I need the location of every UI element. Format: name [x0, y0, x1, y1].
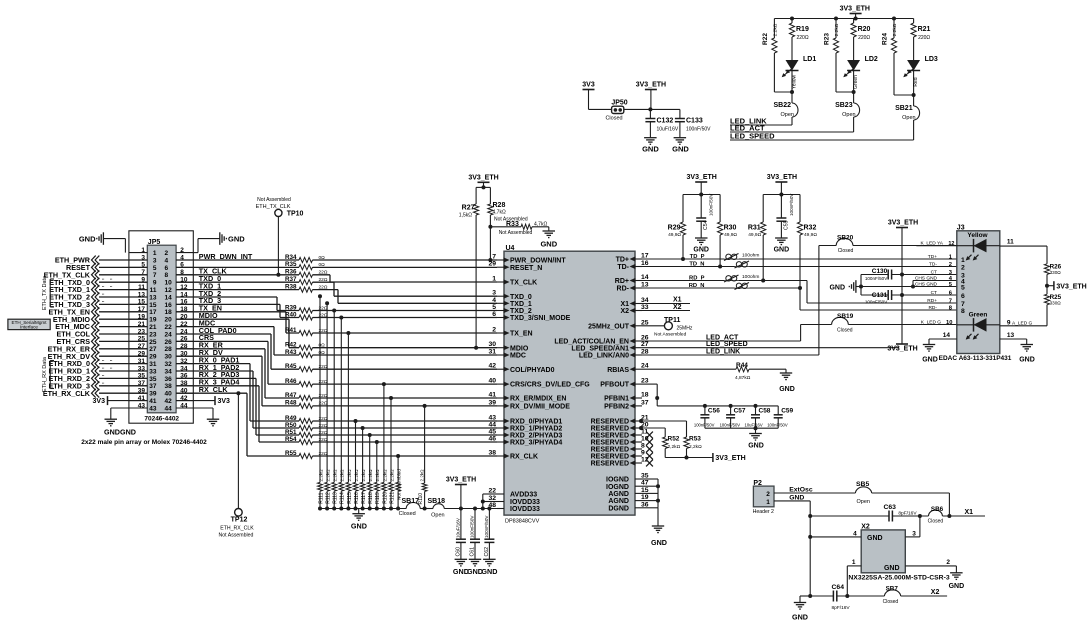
svg-text:8: 8 [641, 443, 645, 450]
svg-text:RXD_3/PHYAD4: RXD_3/PHYAD4 [510, 440, 562, 447]
svg-text:19: 19 [149, 317, 157, 324]
svg-text:1: 1 [852, 559, 856, 566]
svg-text:PFBIN1: PFBIN1 [604, 396, 629, 403]
svg-text:39: 39 [149, 391, 157, 398]
svg-text:K_LED YA: K_LED YA [921, 240, 944, 246]
svg-text:3V3_ETH: 3V3_ETH [767, 174, 797, 181]
svg-text:Interface: Interface [20, 325, 38, 330]
svg-text:2: 2 [949, 262, 952, 268]
svg-text:R24: R24 [882, 33, 889, 45]
svg-text:SB22: SB22 [773, 102, 791, 109]
svg-text:R37: R37 [285, 276, 297, 283]
svg-text:SB19: SB19 [837, 313, 854, 320]
svg-text:Green: Green [853, 75, 859, 89]
svg-text:ETH_RX_CLK: ETH_RX_CLK [220, 526, 254, 532]
svg-text:C133: C133 [686, 118, 703, 125]
svg-text:R49: R49 [285, 415, 297, 422]
svg-text:MDC: MDC [510, 353, 526, 360]
svg-text:R113: R113 [333, 492, 339, 504]
svg-text:GND: GND [949, 583, 965, 590]
svg-text:R41: R41 [285, 327, 297, 334]
svg-text:K_LED G: K_LED G [921, 320, 942, 326]
svg-text:12: 12 [948, 241, 954, 247]
svg-text:TD-: TD- [929, 262, 937, 268]
svg-text:49,9Ω: 49,9Ω [668, 232, 681, 238]
svg-text:37: 37 [641, 399, 649, 406]
svg-text:X1: X1 [673, 297, 682, 304]
svg-text:10uF/16V: 10uF/16V [657, 127, 679, 133]
svg-text:25: 25 [149, 339, 157, 346]
svg-text:18: 18 [165, 309, 173, 316]
svg-text:Closed: Closed [605, 116, 622, 122]
svg-text:RX_CLK: RX_CLK [510, 454, 538, 461]
svg-text:7: 7 [153, 272, 157, 279]
svg-text:2.2kΩ: 2.2kΩ [892, 23, 898, 36]
svg-text:18: 18 [641, 392, 649, 399]
svg-text:R50: R50 [285, 422, 297, 429]
svg-text:3V3_ETH: 3V3_ETH [687, 174, 717, 181]
svg-text:100nF/50V: 100nF/50V [694, 423, 715, 428]
svg-text:R21: R21 [918, 26, 931, 33]
svg-text:R22: R22 [762, 33, 769, 45]
svg-text:X2: X2 [931, 589, 940, 596]
svg-text:Closed: Closed [837, 328, 853, 334]
svg-text:11: 11 [1007, 239, 1014, 246]
svg-text:R44: R44 [736, 362, 748, 369]
svg-text:▪▪: ▪▪ [110, 277, 112, 281]
svg-text:100ohm: 100ohm [742, 274, 759, 280]
svg-text:C63: C63 [883, 504, 896, 511]
svg-text:R48: R48 [285, 400, 297, 407]
svg-text:220Ω: 220Ω [858, 35, 870, 41]
svg-text:C59: C59 [781, 408, 793, 415]
svg-text:41: 41 [149, 398, 157, 405]
svg-text:Green: Green [969, 312, 988, 319]
svg-text:TX_CLK: TX_CLK [510, 280, 537, 287]
svg-text:RD_P: RD_P [689, 276, 705, 282]
svg-text:R42: R42 [285, 342, 297, 349]
svg-text:1,5kΩ: 1,5kΩ [459, 213, 472, 219]
svg-text:29: 29 [149, 354, 157, 361]
svg-text:100nF/50V: 100nF/50V [789, 193, 794, 216]
svg-text:2: 2 [180, 247, 184, 254]
svg-text:C60: C60 [455, 547, 461, 557]
svg-text:J3: J3 [957, 225, 965, 232]
svg-text:3V3: 3V3 [218, 398, 231, 405]
svg-text:3: 3 [912, 531, 916, 538]
svg-text:29: 29 [488, 261, 496, 268]
svg-text:TD_N: TD_N [689, 262, 704, 268]
svg-text:R33: R33 [506, 221, 519, 228]
svg-text:0Ω: 0Ω [319, 255, 326, 261]
svg-text:DGND: DGND [608, 505, 629, 512]
svg-text:2.2kΩ: 2.2kΩ [361, 469, 366, 482]
svg-text:X1: X1 [965, 509, 974, 516]
svg-text:31: 31 [149, 361, 157, 368]
svg-text:GND: GND [779, 386, 795, 393]
svg-text:RESERVED: RESERVED [591, 454, 629, 461]
svg-text:A_LED G: A_LED G [1012, 320, 1033, 326]
svg-text:GND: GND [829, 284, 845, 291]
svg-text:22: 22 [165, 324, 173, 331]
svg-text:C61: C61 [470, 547, 476, 557]
svg-text:IOVDD33: IOVDD33 [510, 506, 540, 513]
svg-text:49,9Ω: 49,9Ω [748, 232, 761, 238]
svg-text:R115: R115 [347, 492, 353, 504]
svg-text:Not Assembled: Not Assembled [499, 230, 533, 236]
svg-text:CHS GND: CHS GND [915, 276, 938, 282]
svg-text:R119: R119 [375, 492, 381, 504]
svg-text:LD1: LD1 [803, 56, 816, 63]
svg-text:4,7kΩ: 4,7kΩ [493, 210, 506, 216]
svg-text:R52: R52 [668, 436, 680, 443]
svg-text:30: 30 [165, 354, 173, 361]
svg-text:X1: X1 [620, 301, 629, 308]
svg-text:RD_N: RD_N [689, 283, 705, 289]
svg-text:22Ω: 22Ω [319, 277, 328, 283]
svg-text:▪▪: ▪▪ [102, 359, 104, 363]
svg-text:14: 14 [165, 294, 173, 301]
svg-text:R19: R19 [796, 26, 809, 33]
svg-text:TXD_1: TXD_1 [510, 301, 532, 308]
svg-text:IOGND: IOGND [606, 477, 629, 484]
svg-text:9: 9 [153, 280, 157, 287]
svg-text:TXD_3/SNI_MODE: TXD_3/SNI_MODE [510, 315, 571, 322]
svg-text:10: 10 [641, 436, 649, 443]
svg-text:13: 13 [1007, 332, 1015, 339]
svg-text:RESERVED: RESERVED [591, 426, 629, 433]
svg-text:C62: C62 [484, 547, 490, 557]
svg-text:70246-4402: 70246-4402 [144, 416, 179, 423]
svg-text:R43: R43 [285, 349, 297, 356]
svg-text:TP10: TP10 [287, 211, 304, 218]
svg-text:CT: CT [931, 290, 937, 296]
svg-text:10uF/16V: 10uF/16V [745, 423, 763, 428]
svg-text:LED_LINK/AN0: LED_LINK/AN0 [579, 353, 629, 360]
svg-text:GND: GND [1019, 356, 1035, 363]
svg-text:22Ω: 22Ω [319, 284, 328, 290]
svg-text:R112: R112 [326, 492, 332, 504]
svg-text:Header 2: Header 2 [753, 509, 774, 515]
svg-text:Closed: Closed [838, 248, 854, 254]
svg-text:49,9Ω: 49,9Ω [724, 232, 737, 238]
svg-text:R111: R111 [318, 492, 324, 503]
svg-text:▪▪: ▪▪ [102, 381, 104, 385]
svg-text:100nF/50V: 100nF/50V [484, 515, 489, 538]
svg-text:SB5: SB5 [856, 481, 869, 488]
svg-text:8pF/16V: 8pF/16V [832, 605, 851, 611]
svg-text:TP11: TP11 [664, 317, 680, 324]
svg-text:RBIAS: RBIAS [607, 367, 629, 374]
svg-text:R30: R30 [724, 225, 737, 232]
svg-text:12: 12 [165, 287, 173, 294]
svg-text:GND: GND [693, 247, 709, 254]
svg-text:8pF/16V: 8pF/16V [898, 511, 917, 517]
svg-text:13: 13 [149, 294, 157, 301]
svg-text:16: 16 [165, 302, 173, 309]
svg-text:R51: R51 [285, 429, 297, 436]
svg-text:Yellow: Yellow [967, 232, 988, 239]
svg-text:1: 1 [961, 257, 965, 264]
svg-text:RXD_0/PHYAD1: RXD_0/PHYAD1 [510, 419, 562, 426]
svg-text:IOGND: IOGND [606, 484, 629, 491]
svg-text:2: 2 [961, 264, 965, 271]
svg-text:Not Assembled: Not Assembled [219, 533, 254, 539]
svg-text:GND: GND [351, 521, 367, 530]
svg-text:Not Assembled: Not Assembled [397, 469, 402, 500]
svg-text:22Ω: 22Ω [319, 270, 328, 276]
svg-text:40: 40 [165, 391, 173, 398]
svg-text:GND: GND [228, 235, 245, 244]
svg-text:3V3_ETH: 3V3_ETH [1056, 283, 1086, 290]
svg-text:3V3_ETH: 3V3_ETH [636, 82, 666, 89]
svg-text:C130: C130 [872, 268, 888, 275]
svg-text:R35: R35 [285, 261, 297, 268]
svg-text:44: 44 [165, 405, 173, 412]
svg-text:R31: R31 [748, 225, 761, 232]
svg-text:RESERVED: RESERVED [591, 419, 629, 426]
svg-text:3: 3 [153, 257, 157, 264]
svg-text:R116: R116 [354, 492, 360, 504]
svg-text:ETH_RX Data: ETH_RX Data [42, 356, 48, 392]
svg-text:LD2: LD2 [865, 56, 878, 63]
svg-text:C54: C54 [703, 220, 709, 230]
svg-text:MDIO: MDIO [510, 345, 529, 352]
svg-text:R114: R114 [340, 492, 346, 504]
svg-text:TXD_0: TXD_0 [510, 294, 532, 301]
svg-text:8: 8 [961, 308, 965, 315]
svg-text:330Ω: 330Ω [1050, 301, 1062, 306]
svg-text:R23: R23 [824, 33, 831, 45]
svg-text:RD-: RD- [617, 286, 630, 293]
svg-text:3V3_ETH: 3V3_ETH [468, 174, 498, 181]
svg-text:100ohm: 100ohm [742, 253, 759, 259]
svg-text:U4: U4 [506, 245, 515, 252]
svg-text:GND: GND [481, 567, 497, 576]
svg-text:GND: GND [540, 240, 557, 249]
svg-text:3V3_ETH: 3V3_ETH [888, 220, 918, 227]
svg-text:2: 2 [766, 491, 770, 498]
svg-text:Red: Red [913, 77, 919, 86]
svg-text:100nF/50V: 100nF/50V [865, 300, 888, 305]
svg-text:R118: R118 [368, 492, 374, 504]
svg-text:C64: C64 [832, 584, 845, 591]
svg-text:SB21: SB21 [895, 105, 913, 112]
svg-text:2.2kΩ: 2.2kΩ [419, 469, 424, 482]
svg-text:R120: R120 [382, 492, 388, 504]
svg-text:RESERVED: RESERVED [591, 433, 629, 440]
svg-text:RESERVED: RESERVED [591, 447, 629, 454]
svg-text:7: 7 [961, 301, 965, 308]
svg-text:2.2kΩ: 2.2kΩ [834, 23, 840, 36]
svg-text:TX_EN: TX_EN [510, 331, 533, 338]
svg-text:JP5: JP5 [148, 239, 161, 246]
svg-text:RD+: RD+ [615, 278, 629, 285]
svg-text:10: 10 [946, 320, 952, 326]
svg-text:JP50: JP50 [611, 100, 627, 107]
svg-text:100nF/50V: 100nF/50V [865, 276, 888, 281]
svg-text:ExtOsc: ExtOsc [789, 487, 813, 494]
svg-text:7: 7 [949, 299, 952, 305]
svg-text:AVDD33: AVDD33 [510, 492, 537, 499]
svg-text:17: 17 [149, 309, 157, 316]
svg-text:23: 23 [149, 331, 157, 338]
svg-text:TP12: TP12 [231, 517, 248, 524]
svg-text:4,87kΩ: 4,87kΩ [735, 375, 751, 381]
svg-text:GND: GND [651, 538, 667, 547]
svg-text:RX_ER/MDIX_EN: RX_ER/MDIX_EN [510, 396, 566, 403]
svg-text:10: 10 [165, 280, 173, 287]
svg-text:2.2kΩ: 2.2kΩ [382, 469, 387, 482]
svg-text:100nF/50V: 100nF/50V [720, 423, 741, 428]
svg-text:▪▪: ▪▪ [102, 277, 104, 281]
svg-text:▪▪: ▪▪ [102, 299, 104, 303]
svg-text:5: 5 [961, 284, 965, 291]
svg-text:11: 11 [150, 287, 157, 294]
svg-text:CT: CT [931, 270, 937, 276]
svg-text:4: 4 [165, 257, 169, 264]
svg-text:RXD_1/PHYAD2: RXD_1/PHYAD2 [510, 426, 562, 433]
svg-text:28: 28 [165, 346, 173, 353]
svg-text:R54: R54 [285, 436, 297, 443]
svg-text:R46: R46 [285, 378, 297, 385]
svg-text:X2: X2 [673, 304, 682, 311]
svg-text:SB6: SB6 [931, 506, 944, 513]
svg-text:3V3_ETH: 3V3_ETH [446, 477, 476, 484]
svg-text:36: 36 [165, 376, 173, 383]
svg-text:2,2kΩ: 2,2kΩ [668, 444, 681, 450]
svg-text:Open: Open [902, 115, 915, 121]
svg-text:GND: GND [672, 145, 689, 154]
svg-text:SB20: SB20 [837, 235, 854, 242]
svg-text:DP83848CVV: DP83848CVV [505, 519, 540, 525]
svg-text:RXD_2/PHYAD3: RXD_2/PHYAD3 [510, 433, 562, 440]
svg-text:1: 1 [766, 499, 770, 506]
svg-text:NX3225SA-25.000M-STD-CSR-3: NX3225SA-25.000M-STD-CSR-3 [848, 575, 949, 582]
svg-text:ETH_TX Data: ETH_TX Data [42, 275, 48, 310]
svg-text:3V3_ETH: 3V3_ETH [840, 6, 870, 13]
svg-text:Closed: Closed [883, 599, 899, 605]
svg-text:15: 15 [149, 302, 157, 309]
svg-text:C132: C132 [657, 118, 674, 125]
svg-text:38: 38 [165, 383, 173, 390]
svg-text:GND: GND [884, 565, 900, 572]
svg-text:2x22 male pin array or Molex 7: 2x22 male pin array or Molex 70246-4402 [81, 439, 207, 446]
svg-text:25MHz_OUT: 25MHz_OUT [588, 323, 630, 330]
svg-text:2.2kΩ: 2.2kΩ [333, 469, 338, 482]
svg-text:12: 12 [641, 457, 649, 464]
svg-text:▪▪: ▪▪ [102, 292, 104, 296]
svg-text:14: 14 [943, 332, 951, 339]
svg-text:Open: Open [781, 112, 794, 118]
svg-text:2: 2 [946, 559, 950, 566]
svg-text:R32: R32 [804, 225, 817, 232]
svg-text:R117: R117 [361, 492, 367, 504]
svg-text:GND: GND [789, 494, 804, 501]
svg-text:GND: GND [792, 613, 808, 622]
svg-text:CRS/CRS_DV/LED_CFG: CRS/CRS_DV/LED_CFG [510, 382, 590, 389]
svg-text:IOVDD33: IOVDD33 [510, 499, 540, 506]
svg-text:Open: Open [857, 499, 870, 505]
svg-text:Closed: Closed [928, 518, 944, 524]
svg-text:LED_SPEED: LED_SPEED [706, 341, 748, 348]
svg-text:C55: C55 [783, 220, 789, 230]
svg-text:24: 24 [165, 331, 173, 338]
svg-text:R38: R38 [285, 283, 297, 290]
svg-text:C57: C57 [734, 408, 746, 415]
svg-text:100nF/50V: 100nF/50V [709, 193, 714, 216]
svg-text:100nF/50V: 100nF/50V [686, 127, 711, 133]
svg-text:GND: GND [642, 145, 659, 154]
svg-text:R27: R27 [462, 205, 475, 212]
svg-text:2.2kΩ: 2.2kΩ [318, 469, 323, 482]
svg-text:R121: R121 [389, 492, 395, 504]
svg-text:SB17: SB17 [401, 498, 419, 505]
svg-text:6: 6 [165, 265, 169, 272]
svg-text:Open: Open [842, 112, 855, 118]
svg-text:▪▪: ▪▪ [110, 366, 112, 370]
svg-text:8: 8 [165, 272, 169, 279]
svg-text:2.2kΩ: 2.2kΩ [326, 469, 331, 482]
svg-text:26: 26 [165, 339, 173, 346]
svg-text:SB7: SB7 [886, 586, 899, 593]
svg-text:2.2kΩ: 2.2kΩ [772, 23, 778, 36]
svg-text:R40: R40 [285, 311, 297, 318]
svg-text:GND: GND [867, 535, 883, 542]
svg-text:Yellow: Yellow [792, 74, 798, 89]
svg-text:37: 37 [149, 383, 157, 390]
svg-text:R34: R34 [285, 254, 297, 261]
svg-text:100nF/50V: 100nF/50V [767, 423, 788, 428]
svg-text:34: 34 [165, 368, 173, 375]
svg-text:Closed: Closed [399, 511, 416, 517]
svg-text:TXD_2: TXD_2 [510, 308, 532, 315]
svg-text:▪▪: ▪▪ [102, 285, 104, 289]
svg-text:0Ω: 0Ω [319, 262, 326, 268]
svg-text:100nF/50V: 100nF/50V [470, 515, 475, 538]
svg-text:AGND: AGND [608, 498, 629, 505]
svg-text:PFBOUT: PFBOUT [600, 382, 630, 389]
svg-text:9: 9 [1007, 319, 1011, 326]
svg-text:330Ω: 330Ω [1050, 270, 1062, 275]
svg-text:3V3_ETH: 3V3_ETH [715, 455, 745, 462]
svg-text:Open: Open [431, 512, 444, 518]
svg-text:LED_SPEED/AN1: LED_SPEED/AN1 [571, 345, 629, 352]
svg-text:C58: C58 [759, 408, 771, 415]
svg-text:▪▪: ▪▪ [110, 359, 112, 363]
svg-text:2.2kΩ: 2.2kΩ [347, 469, 352, 482]
svg-text:R47: R47 [285, 392, 297, 399]
svg-text:RESERVED: RESERVED [591, 461, 629, 468]
svg-text:TD+: TD+ [616, 257, 629, 264]
svg-text:9: 9 [641, 450, 645, 457]
svg-text:220Ω: 220Ω [797, 35, 809, 41]
svg-text:R110: R110 [418, 493, 424, 505]
svg-text:C56: C56 [708, 408, 720, 415]
svg-text:2.2kΩ: 2.2kΩ [389, 469, 394, 482]
svg-text:49,9Ω: 49,9Ω [804, 232, 817, 238]
svg-text:Not Assembled: Not Assembled [257, 197, 291, 203]
svg-text:27: 27 [149, 346, 157, 353]
svg-text:RESERVED: RESERVED [591, 440, 629, 447]
svg-text:▪▪: ▪▪ [102, 366, 104, 370]
svg-text:CHS GND: CHS GND [915, 282, 938, 288]
svg-text:R29: R29 [668, 225, 681, 232]
svg-text:GND: GND [774, 247, 790, 254]
svg-text:GND: GND [79, 235, 96, 244]
svg-text:3V3: 3V3 [93, 398, 106, 405]
svg-text:RD+: RD+ [927, 298, 937, 304]
